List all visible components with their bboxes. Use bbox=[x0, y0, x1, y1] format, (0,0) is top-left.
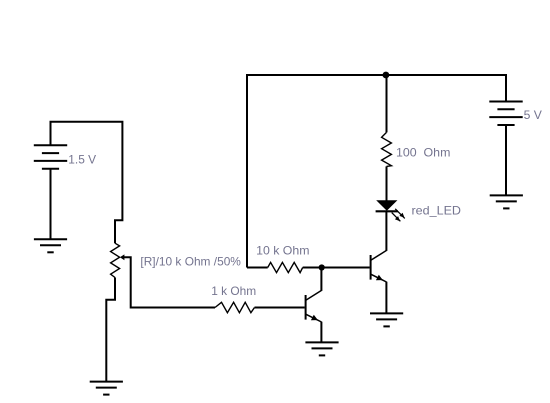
resistor 10 k Ohm zigzag bbox=[268, 262, 303, 272]
wire potentiometer bottom to ground bbox=[106, 278, 115, 382]
wire battery V1 bottom lead bbox=[50, 169, 52, 240]
LED light emission arrow 1 bbox=[395, 209, 405, 219]
ground under battery V1 bbox=[34, 239, 67, 252]
ground under potentiometer bbox=[90, 382, 123, 395]
wire 1 k Ohm to transistor Q1 base bbox=[255, 307, 305, 309]
LED red_LED cathode bar bbox=[376, 210, 398, 212]
wire Q1 emitter to ground bbox=[320, 322, 322, 343]
junction node base Q2 bbox=[319, 264, 325, 270]
potentiometer R wiper arrow bbox=[120, 254, 125, 260]
svg-text:100 Ohm: 100 Ohm bbox=[396, 146, 450, 160]
svg-text:[R]/10 k Ohm /50%: [R]/10 k Ohm /50% bbox=[140, 254, 241, 268]
resistor 100 Ohm zigzag bbox=[382, 132, 392, 166]
LED red_LED anode triangle bbox=[376, 200, 397, 211]
battery V1 1.5V bbox=[34, 145, 67, 168]
svg-text:1 k Ohm: 1 k Ohm bbox=[211, 284, 256, 298]
svg-text:10 k Ohm: 10 k Ohm bbox=[256, 244, 309, 258]
wire LED cathode to Q2 collector bbox=[385, 211, 387, 251]
battery V2 5V bbox=[489, 102, 522, 126]
ground under battery V2 bbox=[490, 195, 523, 208]
junction top node bbox=[383, 72, 390, 79]
wire battery V2 bottom to ground bbox=[505, 125, 507, 195]
transistor Q1 bbox=[306, 290, 322, 322]
wire Q1 collector to node bbox=[320, 268, 322, 291]
wire left rail to 10 k Ohm resistor bbox=[247, 267, 268, 269]
wire wiper to 1 k Ohm resistor bbox=[124, 257, 216, 307]
wire top node down to 100 Ohm resistor bbox=[386, 75, 388, 132]
wire 100 Ohm to LED bbox=[386, 166, 388, 200]
potentiometer R 10k zigzag bbox=[111, 243, 120, 277]
wire Q2 emitter to ground bbox=[385, 282, 387, 314]
wire left rail top and top rail to battery V2 bbox=[247, 75, 506, 268]
svg-text:5 V: 5 V bbox=[524, 108, 542, 122]
svg-text:1.5 V: 1.5 V bbox=[68, 153, 96, 167]
ground under transistor Q1 bbox=[305, 342, 338, 355]
svg-text:red_LED: red_LED bbox=[412, 204, 462, 218]
LED light emission arrow 2 bbox=[392, 213, 401, 222]
ground under transistor Q2 bbox=[370, 313, 403, 326]
transistor Q2 bbox=[371, 250, 387, 282]
wire battery V1 top to potentiometer top bbox=[51, 122, 123, 243]
wire 10 k Ohm to Q2 base through node bbox=[303, 267, 370, 269]
resistor 1 k Ohm zigzag bbox=[215, 302, 255, 312]
